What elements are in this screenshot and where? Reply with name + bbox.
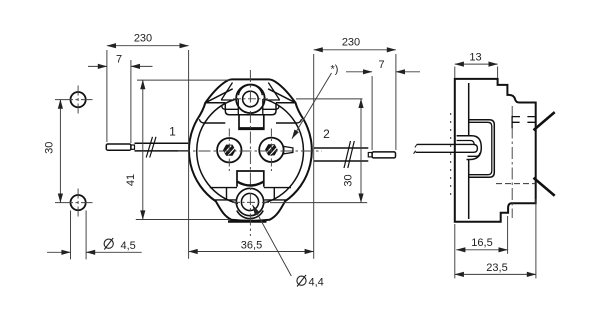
contact hole 2 (259, 138, 283, 162)
top boss middle arc (239, 85, 263, 95)
side centerline vertical (511, 106, 513, 218)
bottom boss horizontal centerline (232, 201, 269, 203)
top shelf rounded right (262, 106, 279, 110)
dimension 230 left (107, 46, 189, 142)
dimension 23,5 (455, 199, 536, 278)
top gusset left (221, 83, 233, 101)
top boss horizontal centerline (233, 98, 268, 100)
svg-text:*): *) (331, 64, 339, 76)
top slot (239, 115, 264, 130)
svg-text:230: 230 (342, 37, 360, 49)
side body outline (455, 79, 536, 222)
side cable (416, 144, 478, 152)
bottom boss outer circle (236, 188, 263, 215)
wire 1 ferrule (106, 144, 131, 150)
diameter symbol 4,4 (297, 276, 306, 285)
bottom slot (237, 171, 264, 187)
main horizontal centerline (178, 150, 322, 152)
dimension 230 right (314, 50, 396, 150)
contact pin 2 hex hatched (266, 145, 278, 155)
right wing step line (276, 119, 302, 123)
bottom slot sag arc (237, 182, 264, 186)
svg-text:13: 13 (469, 52, 481, 64)
side pocket inner (469, 122, 492, 174)
top collar sides (238, 99, 262, 115)
main vertical centerline (249, 70, 251, 236)
wire 1 crimp (131, 145, 135, 149)
side clamp hook outer (457, 136, 482, 160)
wire 2 ferrule (372, 152, 395, 158)
svg-text:4,5: 4,5 (121, 240, 136, 252)
top tab pocket (225, 103, 276, 115)
svg-text:2: 2 (323, 127, 330, 141)
dimension 36,5 (189, 50, 314, 259)
contact pin 1 hex hatched (224, 145, 236, 155)
dimension 13 (455, 64, 498, 78)
centerline cross of bottom hole (55, 202, 93, 204)
top boss outer circle (236, 85, 265, 114)
wire 1 break symbol (146, 137, 156, 158)
svg-text:23,5: 23,5 (486, 262, 507, 274)
side clamp bottom curl (468, 153, 480, 157)
bottom wing left lines (210, 188, 237, 200)
svg-text:30: 30 (44, 142, 56, 154)
side pocket outer (469, 120, 495, 177)
side hidden line bottom (496, 183, 536, 185)
side clamp hook inner (457, 141, 475, 145)
wire 2 cable (314, 148, 369, 161)
side pin bottom (534, 178, 555, 196)
dimension 7 right (346, 72, 420, 150)
side contact F mark right (527, 117, 535, 123)
contact hole 1 (217, 138, 241, 162)
socket inner rim left arc (197, 99, 238, 204)
diameter symbol 4,5 (104, 239, 113, 248)
hole 2 vertical centerline (270, 129, 272, 173)
svg-text:16,5: 16,5 (471, 237, 492, 249)
side contact F mark left (512, 116, 520, 128)
side pin top (534, 112, 555, 130)
bottom boss inner circle (241, 193, 258, 210)
svg-text:30: 30 (343, 174, 355, 186)
contact 2 side tab (284, 146, 293, 154)
mounting hole bottom (71, 195, 86, 210)
top tab shoulder right (268, 89, 295, 103)
wire 1 cable (135, 143, 190, 151)
wire 2 crimp (368, 153, 372, 157)
bottom tab arc under boss (237, 211, 263, 219)
socket inner rim right arc (263, 99, 303, 203)
centerline cross of top hole (55, 99, 93, 101)
dimension diameter 4,5 (47, 211, 142, 260)
svg-text:7: 7 (116, 54, 122, 66)
side inner vertical line (468, 83, 470, 219)
top gusset right (268, 83, 280, 101)
dimension 7 left (88, 60, 153, 143)
mounting hole top (71, 92, 86, 107)
wire 2 break symbol (344, 141, 354, 168)
bottom tab chord thick (228, 220, 267, 222)
side hidden edge dashes (450, 113, 452, 196)
svg-text:230: 230 (134, 33, 152, 45)
leader diameter 4,4 (253, 205, 292, 276)
bottom wing right lines (264, 188, 291, 200)
top tab shoulder left (205, 89, 232, 103)
svg-text:7: 7 (378, 59, 384, 71)
socket outer profile (189, 79, 312, 220)
svg-text:41: 41 (125, 174, 137, 186)
leader asterisk note (292, 73, 332, 139)
left wing step line (199, 119, 225, 123)
svg-text:36,5: 36,5 (241, 239, 262, 251)
hole 1 vertical centerline (228, 129, 230, 173)
dimension 16,5 (455, 216, 508, 278)
dimension 30 left (59, 100, 61, 203)
top shelf rounded left (222, 106, 239, 110)
dimension 41 (136, 80, 231, 219)
top boss inner circle (243, 91, 259, 107)
dimension 30 right (270, 99, 367, 203)
side cable end ticks (414, 144, 417, 153)
svg-text:4,4: 4,4 (309, 277, 324, 289)
svg-text:1: 1 (169, 125, 176, 139)
